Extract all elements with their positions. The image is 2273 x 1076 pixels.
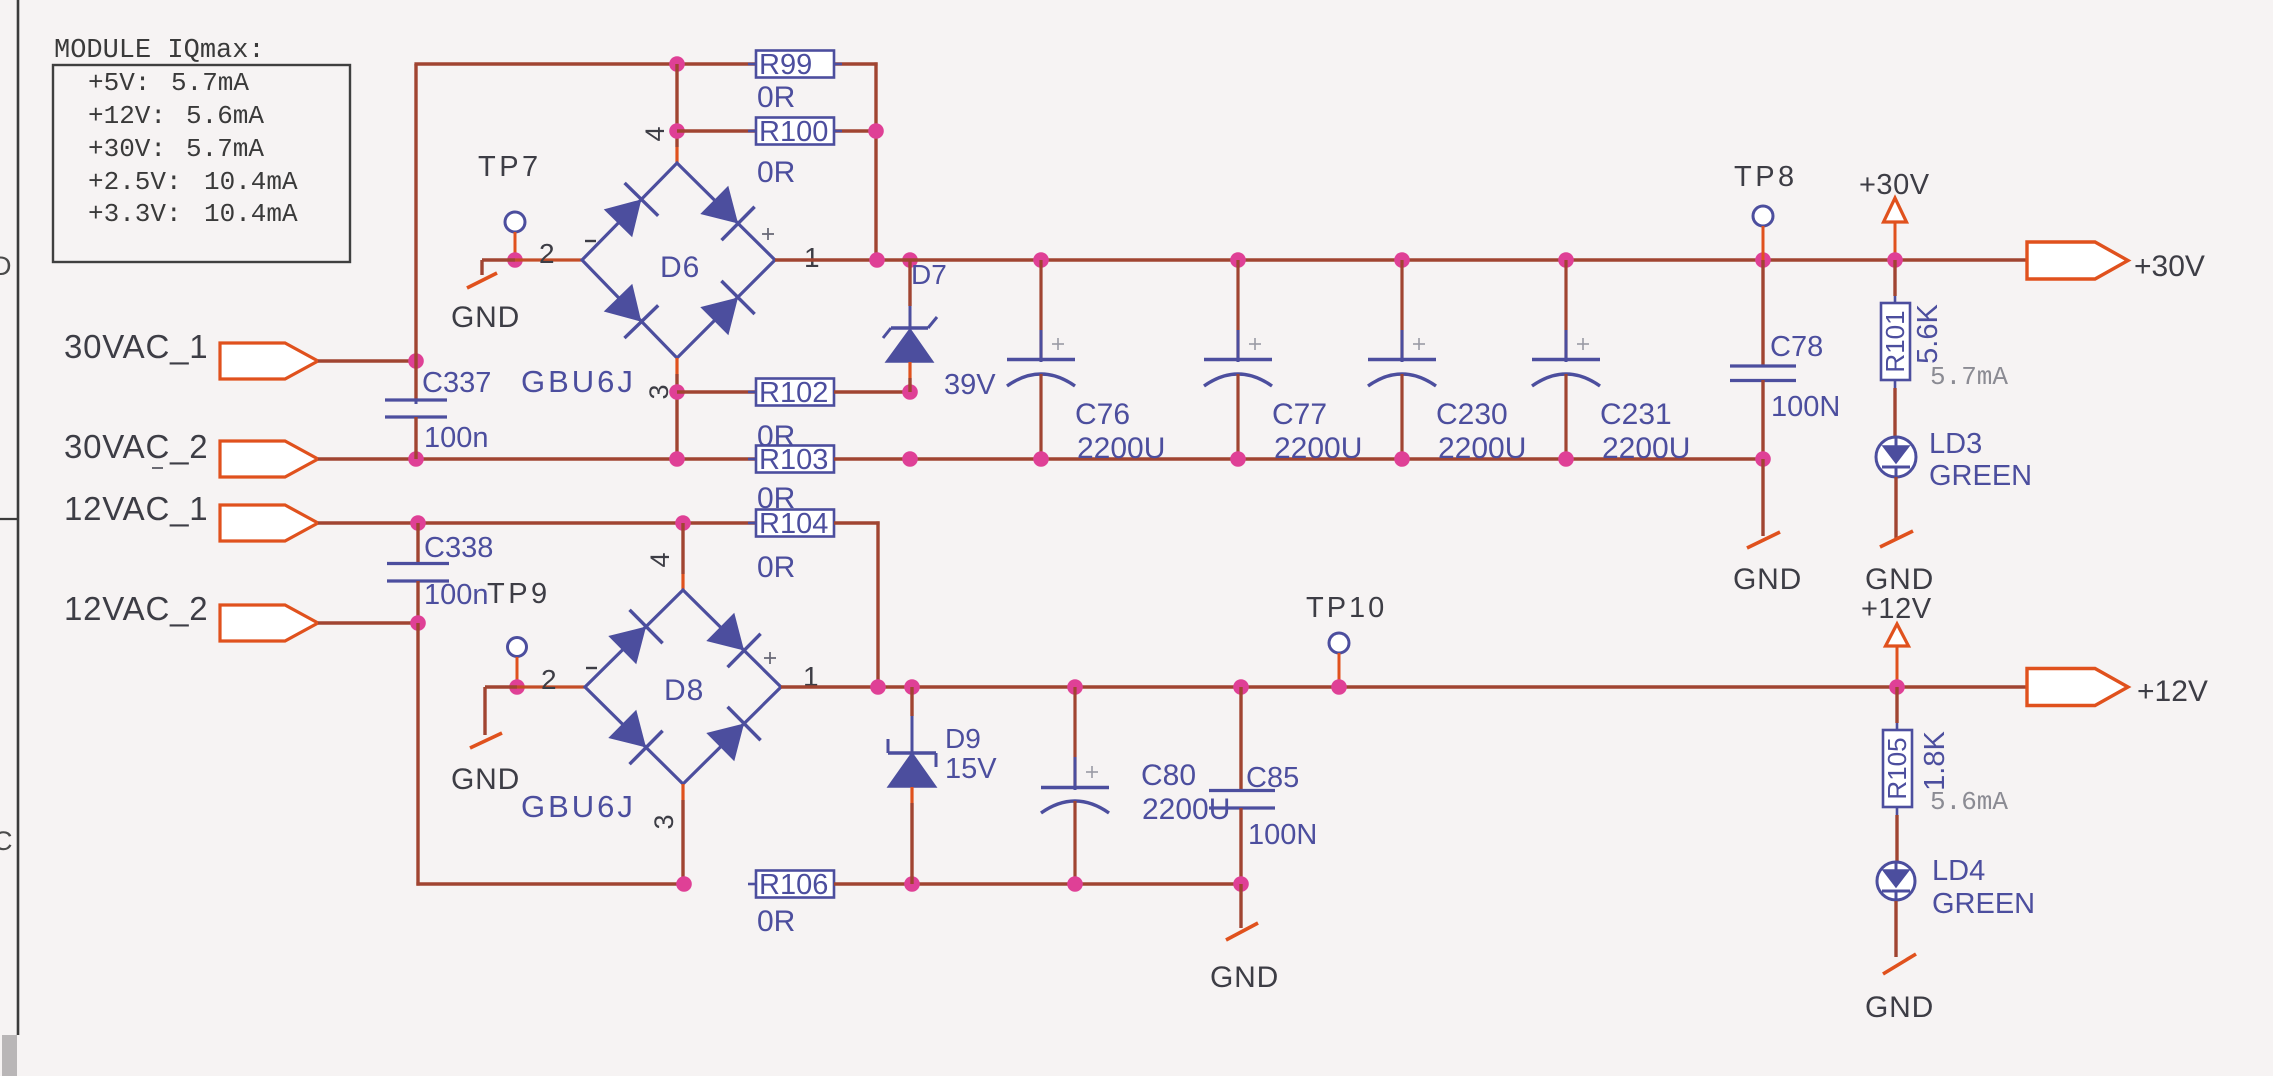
- label C76: [1075, 398, 1130, 431]
- label GND LD3: [1865, 563, 1934, 596]
- svg-text:R106: R106: [759, 869, 828, 901]
- note line +2.5V: [88, 167, 298, 197]
- capacitor C337: [385, 361, 447, 459]
- led LD3: [1876, 437, 1916, 477]
- polarity plus D8: [764, 652, 776, 664]
- junction C77 bottom: [1230, 451, 1246, 467]
- wire pin4 to R100: [677, 129, 756, 132]
- svg-text:C: C: [0, 826, 13, 856]
- svg-text:+30V: +30V: [1859, 169, 1930, 201]
- pin number 4 D6: [640, 126, 670, 141]
- svg-text:+12V:: +12V:: [88, 101, 166, 131]
- value R101 5.6K: [1912, 304, 1944, 364]
- svg-text:GND: GND: [451, 763, 520, 796]
- svg-text:100N: 100N: [1771, 391, 1840, 423]
- label D8: [664, 674, 704, 707]
- capacitor C76: [1007, 260, 1075, 459]
- wire 30VAC_2 rail right: [834, 457, 1763, 460]
- wire C85 to ground: [1239, 884, 1242, 928]
- label LD3: [1929, 428, 1982, 460]
- value C337 100n: [424, 422, 489, 454]
- port +12V out: [2027, 669, 2128, 706]
- capacitor C78: [1730, 260, 1796, 459]
- testpoint TP8: [1753, 206, 1773, 226]
- capacitor C231: [1532, 260, 1600, 459]
- svg-text:GND: GND: [1865, 563, 1934, 596]
- svg-text:5.7mA: 5.7mA: [171, 68, 249, 98]
- capacitor C230: [1368, 260, 1436, 459]
- polarity plus D6: [762, 228, 774, 240]
- wire C78 to ground: [1761, 459, 1764, 536]
- label TP7: [478, 151, 542, 183]
- resistor R104: [748, 508, 842, 540]
- svg-text:2200U: 2200U: [1602, 432, 1690, 465]
- label C78: [1770, 331, 1823, 363]
- junction D7 top: [902, 252, 918, 268]
- pin number 1 D8: [803, 661, 819, 692]
- svg-text:30VAC_2: 30VAC_2: [64, 428, 208, 465]
- junction C85 top: [1233, 679, 1249, 695]
- port 30VAC_2: [220, 441, 318, 477]
- junction R100 left: [669, 123, 685, 139]
- value R104 0R: [757, 551, 795, 584]
- junction rail3 bridge: [676, 876, 692, 892]
- diode D6 bottom-right: [698, 281, 755, 338]
- resistor R101: [1880, 296, 1910, 388]
- wire bridge pin4 riser: [675, 64, 678, 163]
- junction C231 bottom: [1558, 451, 1574, 467]
- polarity minus D8: [586, 667, 597, 669]
- note line +5V: [88, 68, 249, 98]
- net label 12VAC_2: [64, 590, 208, 627]
- wire TP9 stem: [516, 657, 519, 687]
- junction R101 top: [1887, 252, 1903, 268]
- wire TP7 to bridge pin2: [515, 258, 582, 261]
- junction rail2 D7: [902, 451, 918, 467]
- wire R99 to corner: [834, 62, 878, 65]
- svg-text:GREEN: GREEN: [1929, 460, 2032, 492]
- polarity minus D6: [585, 240, 596, 242]
- junction TP10: [1331, 679, 1347, 695]
- ground GND below LD3: [1880, 531, 1913, 547]
- svg-text:D: D: [0, 251, 12, 281]
- wire top rail to R99: [414, 62, 756, 65]
- svg-text:R104: R104: [759, 508, 828, 540]
- svg-text:12VAC_2: 12VAC_2: [64, 590, 208, 627]
- diode D6 top-right: [698, 184, 755, 241]
- svg-text:30VAC_1: 30VAC_1: [64, 328, 208, 365]
- svg-text:2200U: 2200U: [1438, 432, 1526, 465]
- svg-text:4: 4: [640, 126, 670, 141]
- svg-text:5.7mA: 5.7mA: [1930, 362, 2008, 392]
- svg-text:+30V: +30V: [2134, 250, 2205, 283]
- net label +30V out: [2134, 250, 2205, 283]
- wire 12VAC_2 drop: [416, 623, 684, 886]
- note line +12V: [88, 101, 264, 131]
- label D6: [660, 251, 700, 284]
- junction C85 bottom: [1233, 876, 1249, 892]
- svg-text:100n: 100n: [424, 579, 489, 611]
- junction C76 bottom: [1033, 451, 1049, 467]
- value R99 0R: [757, 81, 795, 114]
- resistor R99: [748, 49, 842, 81]
- junction C77 top: [1230, 252, 1246, 268]
- wire rail to R105: [1895, 687, 1898, 723]
- junction R102 left: [669, 384, 685, 400]
- port 12VAC_1: [220, 505, 318, 541]
- wire 12VAC_1 to C338: [318, 521, 416, 524]
- wire LD3 to ground: [1894, 477, 1897, 538]
- svg-text:R105: R105: [1882, 737, 1912, 799]
- svg-text:2200U: 2200U: [1077, 432, 1165, 465]
- svg-text:C77: C77: [1272, 398, 1327, 431]
- label C231: [1600, 398, 1672, 431]
- junction C230 top: [1394, 252, 1410, 268]
- diode D8 top-right: [704, 611, 761, 668]
- ground GND below C78: [1747, 532, 1780, 548]
- led LD4: [1877, 861, 1915, 901]
- zener diode D7: [883, 260, 937, 392]
- capacitor C338: [387, 523, 449, 623]
- ground GND at TP9: [470, 687, 517, 748]
- svg-text:+30V:: +30V:: [88, 134, 166, 164]
- bridge rectifier D8 body: [585, 590, 781, 784]
- junction C78 bottom: [1755, 451, 1771, 467]
- label C338: [424, 532, 493, 564]
- svg-text:2200U: 2200U: [1274, 432, 1362, 465]
- port +30V out: [2027, 242, 2128, 279]
- label GND TP7: [451, 301, 520, 334]
- label GND C78: [1733, 563, 1802, 596]
- svg-text:LD4: LD4: [1932, 855, 1985, 887]
- wire rail to R101: [1893, 260, 1896, 296]
- pin number 2 D6: [539, 238, 555, 269]
- value R105 1.8K: [1919, 731, 1951, 791]
- value D7 39V: [944, 369, 996, 401]
- value C85 100N: [1248, 819, 1317, 851]
- wire 30VAC_1 riser: [414, 64, 417, 361]
- current note 5.7mA: [1930, 362, 2008, 392]
- svg-text:C337: C337: [422, 367, 491, 399]
- junction rail2 bridge: [669, 451, 685, 467]
- junction TP9: [509, 679, 525, 695]
- resistor R100: [748, 116, 842, 148]
- svg-text:0R: 0R: [757, 551, 795, 584]
- value C230 2200U: [1438, 432, 1526, 465]
- value C80 2200U: [1142, 793, 1230, 826]
- svg-text:D8: D8: [664, 674, 704, 707]
- wire TP10 stem: [1338, 653, 1341, 687]
- wire LD4 to ground: [1894, 901, 1897, 957]
- svg-text:5.6mA: 5.6mA: [1930, 787, 2008, 817]
- note line +3.3V: [88, 199, 298, 229]
- svg-text:C85: C85: [1246, 762, 1299, 794]
- svg-text:0R: 0R: [757, 81, 795, 114]
- value R103 0R: [757, 482, 795, 515]
- pin number 4 D8: [645, 552, 675, 567]
- svg-text:GBU6J: GBU6J: [521, 789, 636, 824]
- wire R104 right: [834, 521, 880, 687]
- label C230: [1436, 398, 1508, 431]
- junction R105 top: [1889, 679, 1905, 695]
- testpoint TP10: [1329, 633, 1349, 653]
- svg-text:12VAC_1: 12VAC_1: [64, 490, 208, 527]
- svg-text:+3.3V:: +3.3V:: [88, 199, 182, 229]
- ground GND below C85: [1226, 923, 1258, 940]
- svg-text:GND: GND: [1210, 961, 1279, 994]
- svg-text:2: 2: [539, 238, 555, 269]
- junction C338 top: [410, 515, 426, 531]
- label TP9: [487, 578, 551, 610]
- diode D6 bottom-left: [601, 282, 658, 338]
- wire TP8 stem: [1762, 226, 1765, 260]
- label GND TP9: [451, 763, 520, 796]
- ground GND below LD4: [1883, 954, 1916, 974]
- note box: [53, 65, 350, 262]
- port 12VAC_2: [220, 605, 318, 641]
- value R100 0R: [757, 156, 795, 189]
- label C77: [1272, 398, 1327, 431]
- wire TP7 stem: [514, 232, 517, 260]
- svg-text:D9: D9: [945, 723, 981, 754]
- wire R100 to riser: [834, 129, 876, 132]
- svg-text:GND: GND: [1733, 563, 1802, 596]
- svg-text:+2.5V:: +2.5V:: [88, 167, 182, 197]
- resistor R106: [748, 869, 842, 901]
- power symbol +12V: [1886, 624, 1909, 687]
- diode D6 top-left: [602, 183, 659, 239]
- label GBU6J D8: [521, 789, 636, 824]
- label +30V top: [1859, 169, 1930, 201]
- svg-text:100n: 100n: [424, 422, 489, 454]
- svg-text:R99: R99: [759, 49, 812, 81]
- junction rail3 D9: [904, 876, 920, 892]
- junction D8 pin4 riser: [675, 515, 691, 531]
- svg-text:GBU6J: GBU6J: [521, 364, 636, 399]
- value C78 100N: [1771, 391, 1840, 423]
- wire 30VAC_1 to C337: [318, 359, 416, 362]
- svg-text:+5V:: +5V:: [88, 68, 150, 98]
- wire 12VAC_2 entry: [318, 621, 418, 624]
- label GND C85: [1210, 961, 1279, 994]
- label C337: [422, 367, 491, 399]
- capacitor C85: [1209, 687, 1275, 884]
- current note 5.6mA: [1930, 787, 2008, 817]
- wire D8 pin3 drop: [681, 784, 684, 884]
- junction C338 bottom: [410, 615, 426, 631]
- svg-text:R102: R102: [759, 377, 828, 409]
- svg-text:GND: GND: [451, 301, 520, 334]
- svg-text:5.6mA: 5.6mA: [186, 101, 264, 131]
- svg-text:15V: 15V: [945, 753, 997, 785]
- net label +12V out: [2137, 675, 2208, 708]
- pin number 3 D6: [644, 384, 674, 399]
- svg-text:R103: R103: [759, 444, 828, 476]
- svg-text:D6: D6: [660, 251, 700, 284]
- junction C337 bottom: [408, 451, 424, 467]
- junction C78 top: [1755, 252, 1771, 268]
- junction C337 top: [408, 353, 424, 369]
- svg-text:2: 2: [541, 664, 557, 695]
- junction R100 right: [868, 123, 884, 139]
- svg-text:+12V: +12V: [2137, 675, 2208, 708]
- pin number 2 D8: [541, 664, 557, 695]
- svg-text:3: 3: [649, 814, 679, 829]
- svg-text:5.7mA: 5.7mA: [186, 134, 264, 164]
- pin number 1 D6: [804, 242, 820, 273]
- label +12V top: [1861, 593, 1932, 625]
- label D7: [911, 259, 947, 290]
- svg-text:C231: C231: [1600, 398, 1672, 431]
- svg-text:C80: C80: [1141, 759, 1196, 792]
- testpoint TP9: [508, 638, 527, 657]
- value D9 15V: [945, 753, 997, 785]
- junction D9 top: [904, 679, 920, 695]
- value R106 0R: [757, 905, 795, 938]
- svg-text:GND: GND: [1865, 991, 1934, 1024]
- net label 12VAC_1: [64, 490, 208, 527]
- label GND LD4: [1865, 991, 1934, 1024]
- value C77 2200U: [1274, 432, 1362, 465]
- sheet border line: [0, 0, 18, 1076]
- junction C80 bottom: [1067, 876, 1083, 892]
- testpoint TP7: [505, 212, 525, 232]
- svg-text:D7: D7: [911, 259, 947, 290]
- net label 30VAC_2: [64, 428, 208, 468]
- svg-text:C230: C230: [1436, 398, 1508, 431]
- svg-text:C338: C338: [424, 532, 493, 564]
- label C85: [1246, 762, 1299, 794]
- svg-text:TP10: TP10: [1306, 592, 1387, 624]
- svg-text:TP7: TP7: [478, 151, 542, 183]
- svg-text:10.4mA: 10.4mA: [204, 199, 298, 229]
- svg-text:0R: 0R: [757, 905, 795, 938]
- diode D8 bottom-right: [704, 707, 761, 764]
- ground GND at TP7: [467, 260, 515, 288]
- svg-text:+12V: +12V: [1861, 593, 1932, 625]
- capacitor C80: [1041, 687, 1109, 884]
- label LD4: [1932, 855, 1985, 887]
- wire R102 to D7: [834, 390, 910, 393]
- wire bottom rail right: [834, 882, 1241, 885]
- svg-text:GREEN: GREEN: [1932, 888, 2035, 920]
- label C80: [1141, 759, 1196, 792]
- resistor R105: [1882, 723, 1912, 815]
- value LD3 GREEN: [1929, 460, 2032, 492]
- wire pin3 to R102: [677, 390, 756, 393]
- label D9: [945, 723, 981, 754]
- zener diode D9: [888, 687, 936, 884]
- svg-text:1.8K: 1.8K: [1919, 731, 1951, 791]
- junction C231 top: [1558, 252, 1574, 268]
- label TP8: [1734, 161, 1798, 193]
- svg-text:39V: 39V: [944, 369, 996, 401]
- power symbol +30V: [1884, 198, 1907, 260]
- wire +12V rail: [781, 685, 2029, 688]
- junction C80 top: [1067, 679, 1083, 695]
- wire 12VAC_1 rail: [416, 521, 756, 524]
- junction R104 drop: [870, 679, 886, 695]
- svg-text:LD3: LD3: [1929, 428, 1982, 460]
- zone letter C: [0, 826, 13, 856]
- value LD4 GREEN: [1932, 888, 2035, 920]
- svg-text:C78: C78: [1770, 331, 1823, 363]
- wire 30VAC_2 rail left: [318, 457, 756, 460]
- resistor R103: [748, 444, 842, 476]
- svg-text:R101: R101: [1880, 310, 1910, 372]
- svg-text:0R: 0R: [757, 156, 795, 189]
- note title MODULE IQmax: [54, 36, 265, 66]
- value R102 0R: [757, 420, 795, 453]
- svg-text:TP8: TP8: [1734, 161, 1798, 193]
- wire bridge pin3 drop: [675, 358, 678, 459]
- svg-text:R100: R100: [759, 116, 828, 148]
- diode D8 top-left: [606, 610, 663, 667]
- junction C230 bottom: [1394, 451, 1410, 467]
- svg-text:10.4mA: 10.4mA: [204, 167, 298, 197]
- junction top rail: [669, 56, 685, 72]
- junction C76 top: [1033, 252, 1049, 268]
- value C231 2200U: [1602, 432, 1690, 465]
- svg-text:1: 1: [804, 242, 820, 273]
- junction R102 right: [902, 384, 918, 400]
- port 30VAC_1: [220, 343, 318, 379]
- label GBU6J D6: [521, 364, 636, 399]
- wire D8 pin4 riser: [681, 523, 684, 590]
- bridge rectifier D6 body: [582, 163, 775, 358]
- value C338 100n: [424, 579, 489, 611]
- wire TP9 to bridge pin2: [517, 685, 585, 688]
- label TP10: [1306, 592, 1387, 624]
- zone letter D: [0, 251, 12, 281]
- svg-text:100N: 100N: [1248, 819, 1317, 851]
- wire +30V rail: [775, 258, 2027, 261]
- junction TP7: [507, 252, 523, 268]
- wire R105 to LD4: [1895, 815, 1898, 861]
- value C76 2200U: [1077, 432, 1165, 465]
- svg-text:C76: C76: [1075, 398, 1130, 431]
- capacitor C77: [1204, 260, 1272, 459]
- note line +30V: [88, 134, 264, 164]
- junction rail R99 riser: [869, 252, 885, 268]
- wire R101 to LD3: [1893, 388, 1896, 437]
- svg-text:5.6K: 5.6K: [1912, 304, 1944, 364]
- net label 30VAC_1: [64, 328, 208, 365]
- svg-text:4: 4: [645, 552, 675, 567]
- wire corner down to +30V rail: [874, 62, 877, 260]
- pin number 3 D8: [649, 814, 679, 829]
- svg-text:MODULE IQmax:: MODULE IQmax:: [54, 36, 265, 66]
- svg-text:TP9: TP9: [487, 578, 551, 610]
- diode D8 bottom-left: [606, 708, 663, 765]
- resistor R102: [748, 377, 842, 409]
